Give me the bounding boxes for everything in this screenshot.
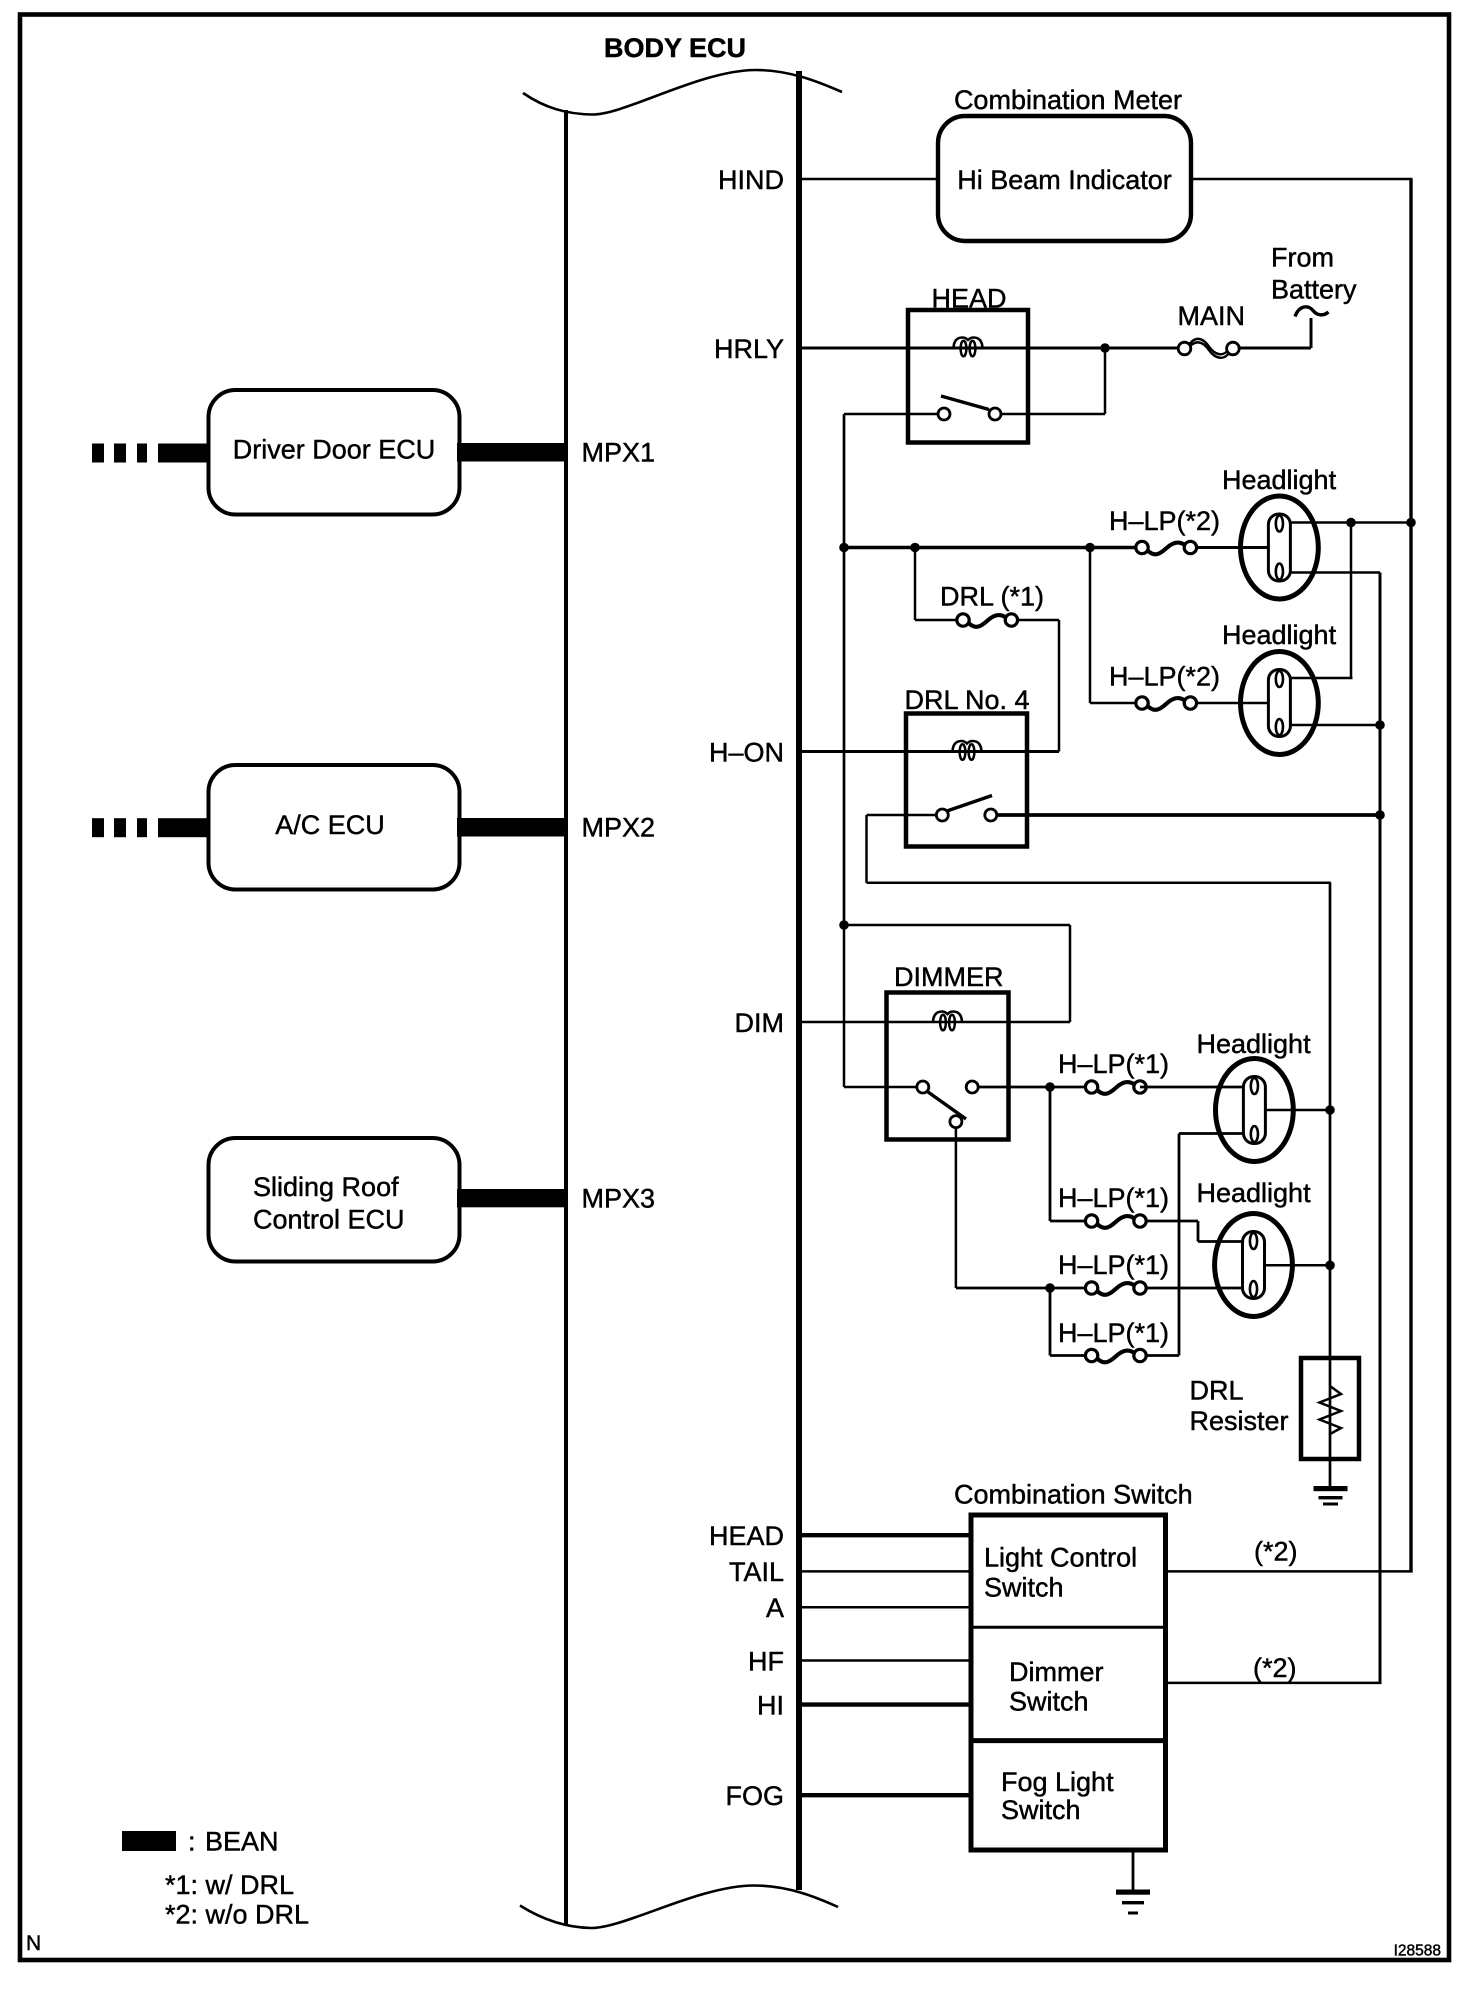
svg-text:A/C ECU: A/C ECU bbox=[275, 810, 385, 840]
svg-text:H–LP(*2): H–LP(*2) bbox=[1109, 662, 1220, 692]
svg-text:Hi Beam Indicator: Hi Beam Indicator bbox=[957, 165, 1172, 195]
svg-text:Control ECU: Control ECU bbox=[253, 1205, 405, 1235]
svg-text:Headlight: Headlight bbox=[1222, 620, 1337, 650]
svg-text:Driver Door ECU: Driver Door ECU bbox=[233, 435, 436, 465]
svg-text:I28588: I28588 bbox=[1394, 1943, 1441, 1960]
svg-text:Switch: Switch bbox=[1001, 1795, 1081, 1825]
svg-text:*2: w/o DRL: *2: w/o DRL bbox=[165, 1900, 309, 1930]
svg-text:MPX1: MPX1 bbox=[582, 437, 656, 467]
svg-text:HIND: HIND bbox=[718, 165, 784, 195]
svg-text:MPX2: MPX2 bbox=[582, 812, 656, 842]
svg-text:H–LP(*1): H–LP(*1) bbox=[1058, 1318, 1169, 1348]
svg-text:Switch: Switch bbox=[1009, 1687, 1089, 1717]
svg-text:A: A bbox=[766, 1593, 784, 1623]
svg-text:H–LP(*2): H–LP(*2) bbox=[1109, 506, 1220, 536]
svg-text:Headlight: Headlight bbox=[1222, 465, 1337, 495]
svg-text:*1: w/ DRL: *1: w/ DRL bbox=[165, 1870, 294, 1900]
svg-text:Resister: Resister bbox=[1190, 1406, 1289, 1436]
svg-text:Fog Light: Fog Light bbox=[1001, 1767, 1114, 1797]
svg-text:HEAD: HEAD bbox=[709, 1521, 784, 1551]
svg-text:DRL: DRL bbox=[1190, 1376, 1244, 1406]
svg-text:Light Control: Light Control bbox=[984, 1543, 1137, 1573]
svg-text:HEAD: HEAD bbox=[931, 284, 1006, 314]
svg-text:HF: HF bbox=[748, 1646, 784, 1676]
svg-text:FOG: FOG bbox=[726, 1781, 785, 1811]
svg-text:Sliding Roof: Sliding Roof bbox=[253, 1172, 399, 1202]
svg-text:BEAN: BEAN bbox=[205, 1827, 279, 1857]
svg-text:H–LP(*1): H–LP(*1) bbox=[1058, 1183, 1169, 1213]
svg-text:HI: HI bbox=[757, 1690, 784, 1720]
svg-text:DIMMER: DIMMER bbox=[894, 962, 1004, 992]
svg-text:HRLY: HRLY bbox=[714, 334, 784, 364]
svg-text:Dimmer: Dimmer bbox=[1009, 1657, 1104, 1687]
svg-text:DRL No. 4: DRL No. 4 bbox=[905, 685, 1030, 715]
svg-text:(*2): (*2) bbox=[1254, 1536, 1298, 1566]
svg-text:H–LP(*1): H–LP(*1) bbox=[1058, 1049, 1169, 1079]
svg-text:TAIL: TAIL bbox=[729, 1557, 784, 1587]
svg-text:H–ON: H–ON bbox=[709, 737, 784, 767]
svg-text:Switch: Switch bbox=[984, 1572, 1064, 1602]
svg-text:From: From bbox=[1271, 243, 1334, 273]
svg-text:MAIN: MAIN bbox=[1178, 301, 1246, 331]
svg-text:(*2): (*2) bbox=[1253, 1653, 1297, 1683]
svg-text:DRL (*1): DRL (*1) bbox=[940, 582, 1044, 612]
svg-text:Headlight: Headlight bbox=[1197, 1029, 1312, 1059]
svg-text:H–LP(*1): H–LP(*1) bbox=[1058, 1250, 1169, 1280]
svg-text:Battery: Battery bbox=[1271, 275, 1357, 305]
svg-text:MPX3: MPX3 bbox=[582, 1183, 656, 1213]
svg-text:BODY ECU: BODY ECU bbox=[604, 33, 746, 63]
svg-text:Headlight: Headlight bbox=[1197, 1178, 1312, 1208]
svg-text:N: N bbox=[26, 1932, 41, 1955]
svg-text:Combination Switch: Combination Switch bbox=[954, 1480, 1193, 1510]
svg-text::: : bbox=[188, 1827, 196, 1857]
svg-text:DIM: DIM bbox=[735, 1008, 785, 1038]
svg-text:Combination Meter: Combination Meter bbox=[954, 85, 1182, 115]
